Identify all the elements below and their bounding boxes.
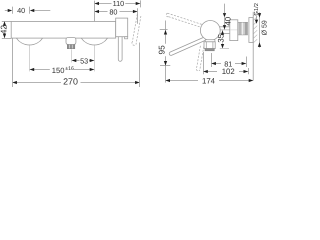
dim 80 right extension — [137, 8, 139, 24]
dim 40 bottom arrow — [223, 25, 226, 29]
left centerline — [29, 44, 31, 71]
G1/2 pointer — [256, 16, 258, 20]
dim 95 text — [157, 45, 167, 55]
extension at spout bottom — [220, 47, 229, 49]
union nut shaded — [238, 22, 248, 35]
dim 270 right extension — [139, 43, 141, 88]
dim 150 +-16 line — [30, 69, 50, 71]
union block — [230, 20, 238, 41]
svg-text:174: 174 — [202, 76, 216, 85]
svg-text:40: 40 — [224, 16, 233, 25]
dim O59 arrows — [258, 13, 261, 18]
body circle — [200, 21, 220, 41]
dim O59 line — [259, 12, 261, 47]
dim 102 arrows — [203, 70, 208, 73]
dim 174 line — [166, 80, 199, 82]
dim 40 top-left: tails — [5, 10, 8, 12]
dim 42 line — [4, 21, 6, 24]
dim 150 arrows — [30, 68, 35, 71]
dim 80 arrows — [95, 10, 100, 13]
dim 110 right extension — [140, 0, 142, 7]
wall hatching — [253, 12, 257, 43]
svg-text:42: 42 — [0, 25, 9, 35]
dim 42 arrows — [3, 21, 6, 26]
svg-text:270: 270 — [63, 77, 78, 87]
dim 174 extension left — [165, 66, 167, 83]
dim 40 vertical: top pointer — [224, 4, 226, 14]
spout neck side — [205, 40, 215, 42]
dim 42 extension lines — [2, 21, 11, 23]
dim 80 line — [95, 11, 108, 13]
dashed lever down position — [196, 46, 203, 71]
aerator centerline — [71, 49, 73, 62]
svg-text:40: 40 — [17, 6, 25, 15]
dim 174 arrows — [166, 79, 171, 82]
dim 35 text — [216, 33, 225, 42]
svg-text:95: 95 — [157, 45, 167, 55]
dim 95 arrows — [164, 30, 167, 35]
svg-text:102: 102 — [222, 67, 235, 76]
dim 95 extension bottom — [160, 65, 170, 67]
connection arm to wall — [216, 26, 230, 28]
svg-text:150: 150 — [52, 66, 65, 75]
dim 95 line — [165, 21, 167, 44]
dim 40 vertical line — [224, 17, 226, 29]
wall line — [252, 12, 254, 81]
dim 102 extensions — [203, 52, 205, 74]
dim 95 extension top — [160, 29, 168, 31]
dim 81 arrows — [211, 62, 216, 65]
dashed lever up position — [166, 13, 204, 28]
dim 35 arrows — [221, 31, 224, 35]
dim 40 text — [224, 16, 233, 25]
svg-text:80: 80 — [109, 7, 117, 16]
wall escutcheon side — [249, 18, 253, 43]
svg-text:Ø 59: Ø 59 — [261, 20, 269, 35]
dim 270 left extension — [12, 38, 14, 87]
aerator side — [204, 42, 215, 49]
dim 42 text — [0, 25, 9, 35]
svg-text:±16: ±16 — [65, 66, 74, 72]
dim 270 arrows — [12, 81, 17, 84]
svg-text:53: 53 — [80, 56, 88, 65]
dim 81 line — [211, 63, 221, 65]
handle block (valve housing) — [116, 18, 128, 37]
svg-text:35: 35 — [216, 33, 225, 42]
dim 81 extensions — [211, 53, 213, 67]
body bar — [11, 22, 116, 39]
dashed swung handle — [132, 14, 141, 45]
dim 110 arrows — [95, 2, 100, 5]
G1/2 label — [253, 3, 260, 16]
dim 35 vertical line — [222, 30, 224, 33]
dim 102 line — [203, 71, 217, 73]
dim O59 text — [261, 20, 269, 35]
aerator knurl side — [205, 49, 214, 51]
dim 40 arrows — [8, 9, 13, 12]
right centerline — [94, 44, 96, 71]
solid lever stick — [169, 37, 205, 55]
dim 40 extension ticks — [12, 7, 14, 14]
aerator cap front — [66, 37, 76, 44]
lever handle hanging — [118, 37, 122, 62]
aerator knurl front — [67, 45, 75, 49]
right escutcheon arc — [81, 38, 107, 45]
block foot — [125, 37, 128, 39]
dim 110 line — [95, 3, 112, 5]
dim 53 arrows — [72, 59, 77, 62]
common extension for 110/80 left — [94, 1, 96, 22]
dim 53 line — [72, 60, 80, 62]
dim 270 line — [12, 82, 61, 84]
left escutcheon arc — [16, 38, 42, 45]
centerline tick at union — [220, 29, 230, 31]
